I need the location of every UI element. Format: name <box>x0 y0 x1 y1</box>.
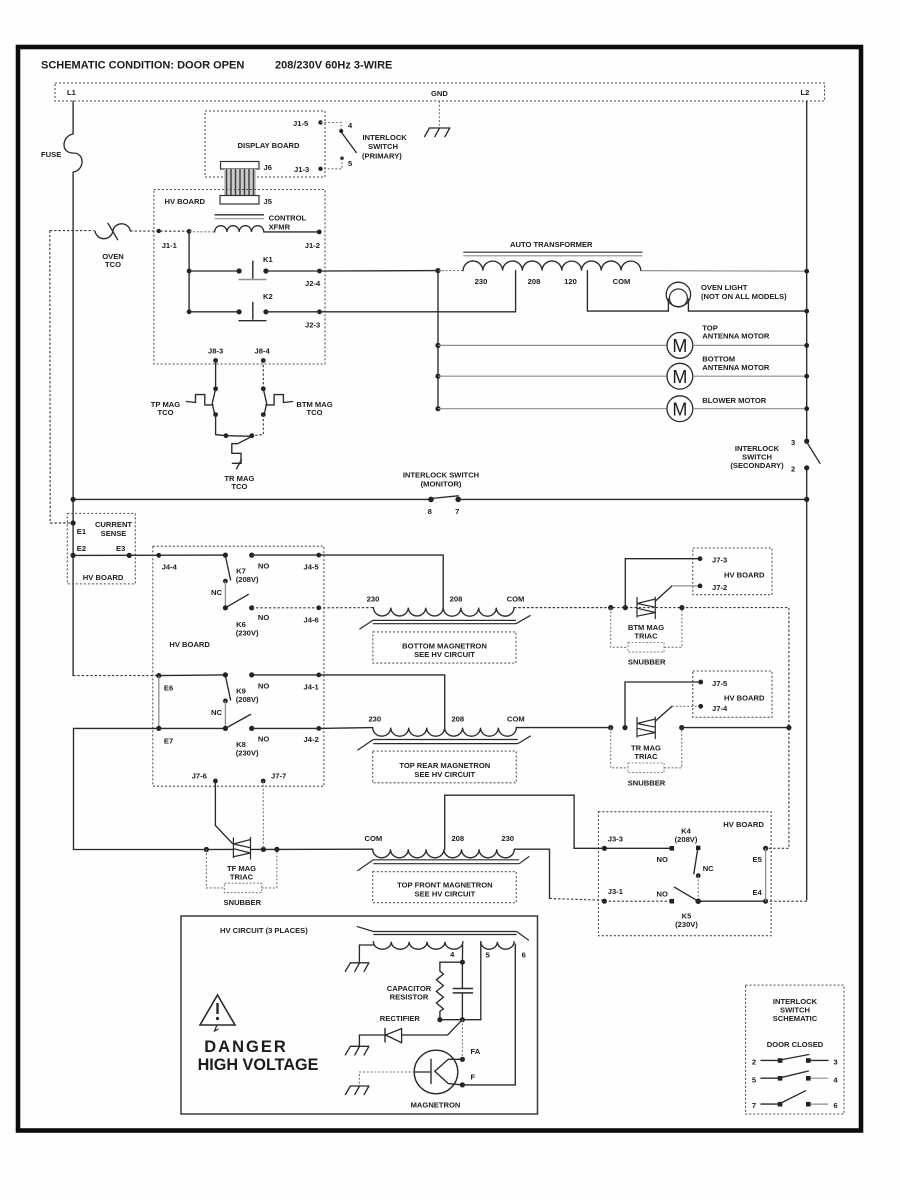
wire K2 row to tap 230 <box>320 271 516 312</box>
svg-text:J4-4: J4-4 <box>162 563 178 572</box>
svg-text:DOOR CLOSED: DOOR CLOSED <box>767 1040 824 1049</box>
svg-text:NO: NO <box>657 855 668 864</box>
snubber (TF) <box>206 849 277 888</box>
svg-text:NO: NO <box>657 890 668 899</box>
node J1-3 <box>318 167 322 171</box>
node E3 <box>127 553 132 558</box>
svg-text:INTERLOCK: INTERLOCK <box>363 133 408 142</box>
svg-text:J1-5: J1-5 <box>293 119 309 128</box>
svg-text:TOP FRONT MAGNETRON: TOP FRONT MAGNETRON <box>397 881 493 890</box>
wire coil right end to L2 <box>641 270 807 273</box>
svg-text:230: 230 <box>368 715 381 724</box>
wire K1 row to autotransformer <box>320 270 439 272</box>
node J1-2 <box>317 230 322 235</box>
control transformer T1 <box>215 214 264 216</box>
svg-text:230: 230 <box>475 277 488 286</box>
resistor (bleed) <box>436 962 462 1020</box>
svg-text:J4-5: J4-5 <box>304 563 320 572</box>
svg-text:208: 208 <box>451 715 464 724</box>
svg-text:M: M <box>672 399 687 419</box>
svg-text:HV BOARD: HV BOARD <box>724 694 765 703</box>
wire HV winding left to ground <box>359 945 373 963</box>
svg-text:K1: K1 <box>263 255 273 264</box>
svg-text:CURRENT: CURRENT <box>95 520 132 529</box>
svg-text:HV BOARD: HV BOARD <box>723 820 764 829</box>
svg-text:NO: NO <box>258 682 269 691</box>
motor top antenna <box>435 343 440 348</box>
svg-text:(230V): (230V) <box>236 629 259 638</box>
svg-text:COM: COM <box>507 595 525 604</box>
relay K9 <box>159 674 226 677</box>
svg-text:J1-2: J1-2 <box>305 241 320 250</box>
svg-text:HV BOARD: HV BOARD <box>83 573 124 582</box>
svg-text:208: 208 <box>528 277 541 286</box>
fuse F1 <box>64 134 82 172</box>
svg-text:J7-5: J7-5 <box>712 679 728 688</box>
svg-text:HV CIRCUIT (3 PLACES): HV CIRCUIT (3 PLACES) <box>220 926 308 935</box>
relay K8 <box>159 727 226 729</box>
svg-text:FA: FA <box>471 1047 481 1056</box>
svg-text:F: F <box>471 1073 476 1082</box>
svg-text:(208V): (208V) <box>236 575 259 584</box>
triac TR MAG <box>608 725 613 730</box>
transformer T5 top front magnetron <box>277 848 373 850</box>
svg-text:COM: COM <box>507 715 525 724</box>
svg-text:J3-1: J3-1 <box>608 887 624 896</box>
svg-text:(SECONDARY): (SECONDARY) <box>730 461 784 470</box>
svg-text:J8-4: J8-4 <box>255 347 271 356</box>
label box top rear magnetron <box>373 751 517 783</box>
svg-text:3: 3 <box>791 438 795 447</box>
transformer T3 bottom magnetron <box>319 555 443 608</box>
junction row <box>440 1019 481 1021</box>
interlock switch schematic box <box>746 985 844 1114</box>
display board box <box>205 111 325 177</box>
svg-text:TCO: TCO <box>231 482 247 491</box>
svg-text:NO: NO <box>258 562 269 571</box>
svg-text:M: M <box>672 336 687 356</box>
svg-text:J7-2: J7-2 <box>712 583 727 592</box>
svg-text:J1-3: J1-3 <box>294 165 309 174</box>
svg-text:MAGNETRON: MAGNETRON <box>411 1101 461 1110</box>
wire pin5 drop <box>480 942 482 1020</box>
node E2 <box>71 553 76 558</box>
wire GND drop <box>438 101 440 128</box>
node J3-1 <box>602 899 607 904</box>
interlock switch (monitor) row <box>73 498 431 500</box>
svg-text:XFMR: XFMR <box>269 223 291 232</box>
TCO chain: wire J8-3 drop <box>215 361 217 389</box>
motor bottom antenna <box>435 374 440 379</box>
svg-text:HV BOARD: HV BOARD <box>724 571 765 580</box>
svg-text:SEE HV CIRCUIT: SEE HV CIRCUIT <box>414 770 475 779</box>
svg-text:7: 7 <box>752 1101 756 1110</box>
svg-text:J3-3: J3-3 <box>608 835 623 844</box>
node E5 <box>763 846 768 851</box>
svg-text:(230V): (230V) <box>236 749 259 758</box>
TR MAG TCO <box>226 435 252 438</box>
svg-text:TCO: TCO <box>306 408 322 417</box>
node 4 junction <box>461 945 463 962</box>
svg-text:INTERLOCK SWITCH: INTERLOCK SWITCH <box>403 471 479 480</box>
svg-text:TCO: TCO <box>157 408 173 417</box>
wire J7-7 drop <box>262 781 264 849</box>
wire J1-1 to coil <box>189 231 215 233</box>
filament winding <box>481 942 514 950</box>
capacitor <box>461 962 463 988</box>
svg-text:HV BOARD: HV BOARD <box>165 197 206 206</box>
svg-text:SNUBBER: SNUBBER <box>628 658 666 667</box>
wire left branch vertical <box>188 232 190 312</box>
label box top front magnetron <box>373 872 517 903</box>
svg-text:6: 6 <box>522 951 526 960</box>
svg-text:SCHEMATIC: SCHEMATIC <box>773 1014 818 1023</box>
relay contact K1 <box>187 269 192 274</box>
triac BTM MAG <box>514 608 789 849</box>
relay K4 <box>696 846 700 850</box>
svg-text:208: 208 <box>451 834 464 843</box>
svg-text:7: 7 <box>455 507 459 516</box>
svg-text:J5: J5 <box>264 197 273 206</box>
svg-text:NC: NC <box>211 708 222 717</box>
relay K6 <box>223 605 228 610</box>
svg-text:SENSE: SENSE <box>101 529 127 538</box>
svg-text:NO: NO <box>258 735 269 744</box>
label box bottom magnetron <box>373 632 516 663</box>
svg-text:8: 8 <box>428 507 432 516</box>
svg-text:J8-3: J8-3 <box>208 347 223 356</box>
motor blower <box>435 406 440 411</box>
svg-text:E5: E5 <box>753 855 763 864</box>
svg-text:SEE HV CIRCUIT: SEE HV CIRCUIT <box>414 650 475 659</box>
lamp oven light <box>667 299 669 311</box>
relay K7 <box>223 553 228 558</box>
wire J7-6 gate <box>215 781 232 844</box>
node J3-3 <box>602 846 607 851</box>
BTM MAG TCO <box>266 395 293 405</box>
svg-text:L2: L2 <box>801 88 810 97</box>
wire J8-4 drop <box>262 361 264 389</box>
svg-text:120: 120 <box>564 277 577 286</box>
danger triangle <box>200 995 235 1025</box>
snubber (BTM) <box>611 608 682 648</box>
node J1-1 <box>157 229 161 233</box>
wire J7-5 around to row <box>625 682 701 728</box>
svg-text:J4-1: J4-1 <box>304 683 320 692</box>
svg-text:2: 2 <box>752 1058 756 1067</box>
svg-text:TCO: TCO <box>105 260 121 269</box>
current sense box <box>67 513 135 584</box>
svg-text:208/230V 60Hz 3-WIRE: 208/230V 60Hz 3-WIRE <box>275 60 392 72</box>
wire coil to J1-2 <box>264 231 319 233</box>
svg-text:RESISTOR: RESISTOR <box>390 993 429 1002</box>
wire COM tap <box>587 271 668 312</box>
svg-text:E4: E4 <box>753 888 763 897</box>
wire K5 common to E4 <box>698 900 765 902</box>
svg-text:230: 230 <box>501 834 514 843</box>
svg-text:E6: E6 <box>164 684 173 693</box>
svg-text:NC: NC <box>211 588 222 597</box>
node E1 <box>71 520 76 525</box>
svg-text:3: 3 <box>833 1058 837 1067</box>
wire J7-3 around to row <box>625 559 700 608</box>
svg-text:SNUBBER: SNUBBER <box>224 898 262 907</box>
node J2-3 <box>317 309 322 314</box>
svg-text:TRIAC: TRIAC <box>634 752 658 761</box>
node J2-4 <box>317 269 322 274</box>
svg-text:ANTENNA MOTOR: ANTENNA MOTOR <box>702 363 770 372</box>
oven TCO <box>50 230 94 232</box>
wire E2-E3 row to K7 <box>73 554 225 556</box>
connector J5 <box>220 196 259 205</box>
svg-text:(208V): (208V) <box>236 695 259 704</box>
HV board (K4/K5) box <box>598 812 771 936</box>
svg-text:M: M <box>672 367 687 387</box>
relay K5 <box>695 898 701 904</box>
svg-text:DISPLAY BOARD: DISPLAY BOARD <box>238 141 301 150</box>
svg-text:FUSE: FUSE <box>41 150 61 159</box>
ground (mains) <box>425 128 450 137</box>
interlock switch (primary) <box>339 129 343 133</box>
svg-text:OVEN LIGHT: OVEN LIGHT <box>701 283 748 292</box>
svg-text:(230V): (230V) <box>675 920 698 929</box>
HV winding <box>373 942 462 950</box>
svg-text:J7-4: J7-4 <box>712 704 728 713</box>
svg-text:(PRIMARY): (PRIMARY) <box>362 152 402 161</box>
svg-text:J7-6: J7-6 <box>192 772 207 781</box>
svg-text:TRIAC: TRIAC <box>230 872 254 881</box>
wire L1 vertical <box>72 172 74 676</box>
wire cathode to ground <box>359 1072 414 1086</box>
svg-text:J7-3: J7-3 <box>712 556 727 565</box>
svg-text:230: 230 <box>367 595 380 604</box>
HV circuit detail box <box>181 916 538 1114</box>
interlock switch (secondary) <box>804 439 809 444</box>
J7 box (TR) <box>693 671 772 717</box>
wire to FA <box>461 1020 463 1060</box>
triac TF MAG <box>74 849 207 851</box>
wire dashed left branch to E1 <box>50 231 73 523</box>
svg-text:NO: NO <box>258 613 269 622</box>
svg-text:(208V): (208V) <box>675 835 698 844</box>
HV transformer core <box>357 926 529 940</box>
svg-text:J6: J6 <box>264 163 272 172</box>
svg-text:L1: L1 <box>67 88 77 97</box>
wire 230 end down to J3-1 row <box>515 849 550 898</box>
wire L1 drop <box>72 101 74 134</box>
relay contact K2 <box>187 309 192 314</box>
snubber (TR) <box>611 728 682 768</box>
svg-text:J4-6: J4-6 <box>304 616 319 625</box>
svg-text:AUTO TRANSFORMER: AUTO TRANSFORMER <box>510 240 593 249</box>
J7 box (BTM) <box>693 548 772 595</box>
svg-text:J2-4: J2-4 <box>305 279 321 288</box>
svg-text:TRIAC: TRIAC <box>634 631 658 640</box>
wire 208 tap up and over to J3-3 <box>445 795 672 849</box>
svg-text:K2: K2 <box>263 292 273 301</box>
svg-text:BLOWER MOTOR: BLOWER MOTOR <box>702 396 766 405</box>
svg-text:SNUBBER: SNUBBER <box>628 779 666 788</box>
HV board (relay) box <box>153 546 324 786</box>
svg-text:E7: E7 <box>164 737 173 746</box>
svg-text:(MONITOR): (MONITOR) <box>421 480 462 489</box>
svg-text:COM: COM <box>365 834 383 843</box>
wire junction drops to motors <box>437 271 439 409</box>
svg-text:DANGER: DANGER <box>204 1038 288 1056</box>
svg-text:TOP REAR MAGNETRON: TOP REAR MAGNETRON <box>399 761 490 770</box>
svg-text:E1: E1 <box>77 527 87 536</box>
wire E4 to L2 <box>766 900 807 901</box>
transformer T4 top rear magnetron <box>319 675 445 728</box>
svg-text:SCHEMATIC CONDITION: DOOR OPEN: SCHEMATIC CONDITION: DOOR OPEN <box>41 60 244 72</box>
top supply bus L1/GND/L2 <box>55 83 825 101</box>
svg-text:ANTENNA MOTOR: ANTENNA MOTOR <box>702 332 770 341</box>
svg-text:J4-2: J4-2 <box>304 735 319 744</box>
svg-text:CONTROL: CONTROL <box>269 214 307 223</box>
wire F to pin6 <box>462 944 515 1085</box>
svg-text:COM: COM <box>613 277 631 286</box>
node E4 <box>763 899 768 904</box>
connector J6 ribbon cable <box>221 162 260 170</box>
TP MAG TCO <box>186 395 213 405</box>
wire L2 vertical <box>806 101 808 900</box>
svg-text:J2-3: J2-3 <box>305 321 320 330</box>
svg-text:(NOT ON ALL MODELS): (NOT ON ALL MODELS) <box>701 292 787 301</box>
wire E6 row <box>73 675 159 677</box>
magnetron V1 <box>414 1050 458 1094</box>
svg-text:E2: E2 <box>77 544 86 553</box>
wire to interlock primary <box>321 123 342 130</box>
svg-text:GND: GND <box>431 89 448 98</box>
svg-text:SEE HV CIRCUIT: SEE HV CIRCUIT <box>415 889 476 898</box>
svg-text:2: 2 <box>791 465 795 474</box>
svg-text:208: 208 <box>450 595 463 604</box>
svg-text:HV BOARD: HV BOARD <box>169 640 210 649</box>
svg-text:SWITCH: SWITCH <box>368 142 398 151</box>
svg-text:J1-1: J1-1 <box>162 241 178 250</box>
node E7 <box>156 726 161 731</box>
svg-text:J7-7: J7-7 <box>271 772 286 781</box>
svg-text:HIGH VOLTAGE: HIGH VOLTAGE <box>198 1056 319 1074</box>
HV board (control) box <box>154 190 325 365</box>
svg-text:NC: NC <box>703 864 714 873</box>
svg-text:E3: E3 <box>116 544 125 553</box>
svg-text:RECTIFIER: RECTIFIER <box>380 1014 421 1023</box>
svg-text:6: 6 <box>833 1101 837 1110</box>
